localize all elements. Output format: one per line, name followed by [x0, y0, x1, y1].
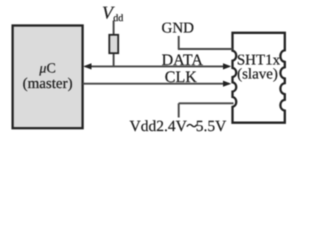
arrowhead DATA right (into SHT1x) [223, 63, 231, 69]
wire resistor R1 to DATA node [113, 54, 115, 66]
wire Vdd supply vertical down to label [178, 103, 180, 117]
svg-text:(master): (master) [23, 76, 73, 92]
tilde of Vdd2.4V~5.5V [187, 124, 197, 126]
svg-text:GND: GND [162, 20, 195, 36]
wire GND vertical [178, 36, 180, 49]
svg-text:(slave): (slave) [237, 67, 278, 83]
svg-text:μC: μC [38, 62, 55, 77]
svg-text:Vdd2.4V: Vdd2.4V [130, 118, 188, 135]
microcontroller U1 (μC master) box [13, 26, 83, 129]
wire DATA bus (bidirectional) [85, 65, 229, 67]
wire Vdd supply horizontal from SHT1x [179, 102, 234, 104]
svg-text:5.5V: 5.5V [196, 118, 227, 135]
arrowhead CLK right (into SHT1x) [223, 81, 231, 87]
sensor U2 (SHT1x slave) box with scalloped pin edges [233, 33, 285, 123]
svg-text:dd: dd [113, 13, 123, 24]
wire Vdd to resistor R1 [113, 21, 115, 35]
wire CLK [83, 83, 229, 85]
resistor R1 (pull-up) [109, 35, 118, 53]
svg-text:CLK: CLK [165, 69, 197, 86]
svg-text:DATA: DATA [162, 52, 204, 69]
wire GND horizontal to SHT1x [178, 48, 233, 50]
arrowhead DATA left (into μC) [83, 63, 91, 69]
